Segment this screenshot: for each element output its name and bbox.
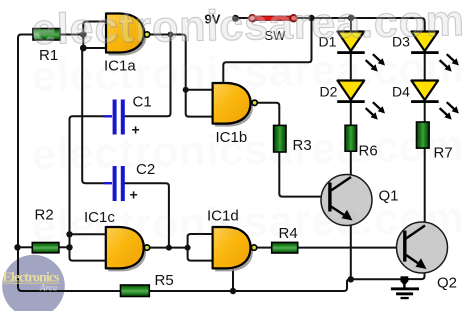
svg-text:D3: D3 — [392, 34, 410, 50]
wire C1 right plate riser to IC1a output node — [124, 35, 171, 117]
ground — [391, 276, 419, 299]
wire D2 to R6 — [350, 102, 352, 126]
wire left rail from R1 down to R5 line — [18, 35, 121, 292]
wire D4 to R7 — [424, 102, 426, 123]
wire R5 right to ground dogleg — [149, 279, 351, 291]
wire Q2 emitter to ground — [407, 267, 425, 279]
watermark faint row 4 — [31, 193, 465, 251]
wire IC1d bottom pin to R5 line — [232, 269, 234, 292]
nand gate IC1c — [106, 227, 150, 271]
svg-text:IC1a: IC1a — [104, 58, 136, 75]
svg-text:R5: R5 — [155, 272, 174, 289]
wire D1 branch from rail — [350, 18, 352, 32]
LED D2 — [337, 81, 385, 120]
svg-text:R6: R6 — [359, 143, 378, 160]
node dot IC1c lower input / R2 — [66, 244, 72, 250]
nand gate IC1d — [213, 227, 257, 271]
svg-text:R3: R3 — [293, 137, 312, 154]
node dot A (gray) — [80, 31, 87, 38]
wire IC1a output to IC1b inputs — [149, 35, 213, 117]
svg-text:R2: R2 — [35, 207, 54, 224]
wire node B to IC1a pin 2 — [83, 47, 107, 49]
capacitor C2 — [104, 166, 125, 201]
wire 9V rail top — [236, 18, 425, 32]
logo text Electronics Area — [3, 271, 61, 293]
wire IC1c pin upper input — [70, 233, 108, 235]
svg-text:Area: Area — [39, 283, 58, 293]
resistor R2 — [32, 243, 59, 253]
node dot IC1b inputs — [183, 87, 189, 93]
svg-text:9V: 9V — [205, 12, 221, 27]
svg-text:IC1d: IC1d — [207, 208, 239, 225]
svg-text:D4: D4 — [392, 84, 410, 100]
svg-text:R1: R1 — [39, 47, 58, 64]
transistor Q2 — [397, 222, 448, 273]
wire R6 to Q1 collector — [350, 151, 352, 178]
wire Q1 emitter down to ground node — [350, 220, 352, 279]
wire C2 right plate riser to IC1c output node — [124, 183, 169, 247]
resistor R4 — [272, 242, 298, 253]
svg-text:C2: C2 — [136, 161, 155, 178]
nand gate IC1b — [213, 83, 258, 127]
wire R3 bottom to Q1 base — [279, 152, 330, 197]
capacitor C1 — [103, 100, 125, 135]
node dot ground junction — [348, 276, 354, 282]
watermark faint row 3 — [31, 121, 465, 179]
wire R7 to Q2 collector — [424, 148, 426, 226]
wire IC1d output to R4 — [256, 247, 271, 249]
node dot IC1c upper input — [66, 231, 72, 237]
wire C1 left plate down to IC1c inputs — [70, 116, 108, 260]
svg-text:+: + — [132, 122, 140, 138]
node dot rail at D1 — [348, 15, 354, 21]
wire IC1d input bracket — [188, 234, 213, 261]
svg-text:C1: C1 — [133, 94, 152, 111]
node dot B — [80, 45, 87, 52]
svg-text:SW: SW — [265, 28, 287, 43]
wire R2 left — [18, 246, 33, 248]
node dot C2 riser at IC1c output — [166, 245, 172, 251]
wire D3 to D4 — [424, 53, 426, 81]
node dot rail at IC1b VCC stub — [308, 15, 314, 21]
node dot IC1d input — [185, 245, 191, 251]
node dot IC1a output — [168, 32, 174, 38]
svg-text:D2: D2 — [320, 84, 338, 100]
resistor R1 — [33, 29, 60, 41]
svg-text:R7: R7 — [434, 145, 453, 162]
svg-text:Q2: Q2 — [437, 275, 457, 292]
svg-text:IC1b: IC1b — [216, 129, 248, 146]
wire node A up to IC1a pin 1 — [83, 22, 107, 35]
svg-text:Q1: Q1 — [379, 188, 399, 205]
switch SW — [249, 15, 297, 22]
wire R2 right to IC1c node — [59, 246, 70, 248]
logo Electronics Area (bottom-left watermark badge) — [2, 255, 65, 311]
wire ground node to ground symbol — [351, 278, 401, 280]
transistor Q1 — [321, 175, 372, 226]
wire IC1b upper input stub — [186, 89, 213, 91]
resistor R6 — [345, 125, 357, 151]
wire R4 to Q2 base — [298, 247, 404, 249]
LED D1 — [337, 32, 385, 72]
LED D4 — [411, 81, 459, 120]
watermark electronicsarea.com row 1 — [33, 0, 467, 56]
resistor R5 — [121, 285, 150, 297]
LED D3 — [411, 32, 459, 72]
resistor R7 — [417, 122, 430, 148]
svg-text:IC1c: IC1c — [84, 209, 115, 226]
wire node A to node B — [82, 35, 84, 49]
wire IC1b output to R3 — [257, 103, 279, 126]
watermark faint row 2 — [31, 43, 465, 101]
wire R1 right to node A — [60, 34, 83, 36]
svg-text:D1: D1 — [319, 34, 337, 50]
node dot IC1d stub at R5 line — [230, 288, 236, 294]
node dot left rail R2 — [14, 244, 20, 250]
resistor R3 — [274, 125, 286, 152]
nand gate IC1a — [106, 14, 150, 56]
svg-text:R4: R4 — [279, 225, 298, 242]
wire D1 to D2 — [350, 53, 352, 81]
node dot 9V terminal — [232, 15, 239, 22]
svg-text:+: + — [130, 187, 138, 203]
wire IC1c output to IC1d node — [150, 247, 188, 249]
wire IC1b top pin to 9V rail — [223, 18, 311, 84]
wire node B down to C2 left plate — [82, 48, 105, 183]
